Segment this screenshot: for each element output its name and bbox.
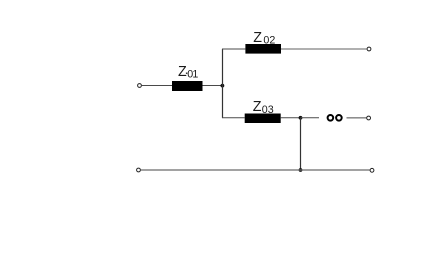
node C junction dot on bottom rail [299, 168, 303, 172]
svg-text:01: 01 [187, 69, 198, 81]
terminal mid-right [367, 116, 371, 120]
wire vertical node B to bottom rail [300, 118, 302, 170]
svg-text:Z: Z [253, 30, 262, 46]
terminal input top-left (port 1) [138, 84, 142, 88]
wire node B to infinity symbol [301, 117, 320, 119]
svg-text:02: 02 [263, 34, 275, 46]
wire infinity symbol to mid-right terminal [347, 117, 367, 119]
terminal bottom-right [370, 168, 374, 172]
terminal output top-right [367, 47, 371, 51]
terminal bottom-left [137, 168, 141, 172]
wire Z02 to output terminal [281, 48, 367, 50]
impedance Z02 [245, 44, 281, 54]
svg-text:Z: Z [178, 64, 187, 80]
wire node A to Z03 [222, 117, 245, 119]
svg-text:03: 03 [262, 104, 274, 116]
svg-text:Z: Z [253, 99, 262, 115]
wire node A to Z02 [222, 48, 245, 50]
impedance Z03 [245, 114, 281, 124]
node B junction dot [299, 116, 303, 120]
wire vertical branch at node A [222, 49, 224, 118]
wire Z03 to node B [281, 117, 301, 119]
infinity load symbol (open circuit, Z = infinity) [328, 115, 334, 121]
subscript dash mark of Z01 label [186, 72, 187, 74]
wire input terminal to Z01 [142, 85, 172, 87]
impedance Z01 [172, 81, 203, 91]
wire bottom rail [141, 169, 370, 171]
node A junction dot [221, 84, 225, 88]
wire Z01 to node A [203, 85, 223, 87]
